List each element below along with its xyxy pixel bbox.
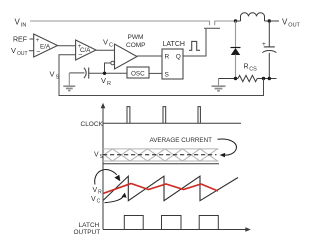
wire cap to OSC, node VR — [89, 72, 127, 74]
svg-text:R: R — [244, 64, 249, 71]
svg-text:OUT: OUT — [17, 51, 28, 57]
wire node B to VOUT — [269, 20, 279, 22]
latch U2 box — [162, 49, 183, 79]
VC label (red) — [91, 196, 101, 205]
wire gate lead — [205, 29, 207, 56]
node VS label — [50, 70, 60, 81]
svg-text:S: S — [56, 74, 60, 80]
ground G1 — [63, 73, 75, 91]
arrow from label to average line — [218, 139, 237, 157]
latch output pulse 2 — [162, 216, 182, 230]
wire E/A out to C/A — [58, 45, 76, 47]
node VS label (waveform) — [94, 152, 104, 161]
node VIN label — [15, 18, 27, 29]
wire C/A out to PWM comp, node VC — [96, 49, 115, 51]
latch output pulse 1 — [124, 216, 143, 230]
waveform axis (vertical) — [102, 107, 104, 230]
node VOUT label (E/A input) — [11, 46, 28, 57]
junction sense tap — [262, 77, 265, 80]
diode D1 — [231, 48, 241, 56]
svg-text:V: V — [15, 18, 21, 27]
svg-text:V: V — [101, 76, 106, 85]
svg-text:OSC: OSC — [131, 70, 145, 77]
wire node A to inductor — [236, 20, 241, 22]
latch output baseline — [103, 229, 246, 231]
VS ripple zigzag A — [103, 149, 218, 161]
latch output pulse 3 — [199, 216, 218, 230]
capacitor C1 (output cap) — [262, 47, 276, 53]
svg-text:C: C — [97, 199, 101, 205]
wire REF stub — [30, 38, 34, 40]
pulse glyph at latch Q — [189, 41, 200, 50]
wire diode branch upper — [235, 21, 237, 48]
svg-text:LATCH: LATCH — [163, 41, 185, 48]
wire ramp cap left — [69, 72, 84, 74]
svg-text:CLOCK: CLOCK — [81, 121, 104, 128]
svg-text:CS: CS — [249, 67, 257, 73]
svg-text:OUT: OUT — [288, 22, 300, 28]
svg-text:REF: REF — [13, 37, 27, 44]
wire cap branch lower — [268, 53, 270, 79]
resistor RCS — [238, 75, 257, 81]
capacitor C2 (ramp cap) — [84, 68, 89, 79]
LATCH OUTPUT label — [74, 222, 101, 236]
op-amp C/A (current amplifier) — [76, 40, 96, 60]
svg-text:R: R — [98, 190, 102, 196]
CLOCK pulse 2 — [163, 107, 166, 124]
svg-text:IN: IN — [21, 22, 27, 28]
svg-text:R: R — [165, 54, 170, 61]
arrow VC to red waveform — [105, 193, 127, 203]
waveform axis arrow up — [101, 103, 106, 109]
svg-text:V: V — [50, 70, 55, 79]
svg-text:E/A: E/A — [40, 44, 51, 51]
VR sawtooth waveform — [103, 176, 238, 201]
resistor RCS value label — [244, 64, 258, 73]
wire current sense feedback VS — [59, 55, 264, 96]
wire VIN rail — [30, 20, 210, 22]
wire OSC to latch S — [149, 72, 162, 74]
average current dashed line — [103, 154, 217, 156]
VS ripple zigzag B — [103, 149, 218, 161]
svg-text:C/A: C/A — [80, 47, 91, 54]
op-amp U1 PWM comparator — [111, 44, 137, 69]
svg-text:OUTPUT: OUTPUT — [74, 229, 101, 236]
VR panel top line — [103, 163, 219, 165]
op-amp E/A (error amplifier) — [34, 34, 58, 57]
svg-text:V: V — [93, 187, 98, 194]
svg-text:AVERAGE CURRENT: AVERAGE CURRENT — [150, 137, 213, 144]
node B junction — [268, 19, 271, 22]
wire comp out to latch R — [137, 55, 162, 57]
node VOUT label (right) — [282, 18, 301, 29]
wire inductor to node B — [265, 20, 270, 22]
ground G2 — [212, 79, 226, 91]
junction cap-rail — [268, 77, 271, 80]
wire comp inverting input from VR — [105, 63, 111, 73]
wire latch Q to gate — [183, 29, 206, 56]
node VR junction — [103, 72, 106, 75]
wire bottom rail left — [219, 78, 239, 80]
svg-text:Q: Q — [176, 54, 181, 61]
wire diode branch lower — [235, 55, 237, 79]
node VC label — [103, 38, 113, 49]
svg-text:V: V — [11, 46, 16, 55]
VS ripple bottom envelope — [103, 160, 219, 162]
transistor Q1 (buck switch MOSFET) — [204, 21, 220, 29]
PWM COMP label — [126, 34, 146, 49]
svg-text:V: V — [94, 152, 99, 159]
wire MOSFET drain to node A — [215, 20, 236, 22]
VC waveform (red) — [103, 184, 218, 194]
svg-text:R: R — [107, 81, 111, 87]
arrow VR to sawtooth — [95, 170, 121, 185]
wire bottom rail right — [257, 78, 276, 80]
node VR label — [101, 76, 111, 87]
wire cap branch upper — [268, 21, 270, 47]
latch output axis arrow right — [245, 227, 251, 232]
CLOCK baseline wire — [103, 122, 241, 124]
VR label — [93, 187, 103, 196]
VS ripple top envelope — [103, 148, 219, 150]
svg-text:COMP: COMP — [126, 42, 146, 49]
CLOCK pulse 1 — [127, 107, 130, 124]
wire VOUT stub — [29, 50, 34, 52]
svg-text:S: S — [165, 72, 170, 79]
svg-text:V: V — [91, 196, 96, 203]
junction diode-rail — [234, 77, 237, 80]
CLOCK pulse 3 — [198, 107, 200, 124]
node A junction — [234, 19, 237, 22]
oscillator OSC box — [127, 67, 149, 78]
inductor L1 — [241, 13, 265, 21]
svg-text:V: V — [103, 38, 108, 47]
svg-text:C: C — [109, 42, 113, 48]
svg-text:V: V — [282, 18, 288, 27]
svg-text:PWM: PWM — [128, 34, 144, 41]
